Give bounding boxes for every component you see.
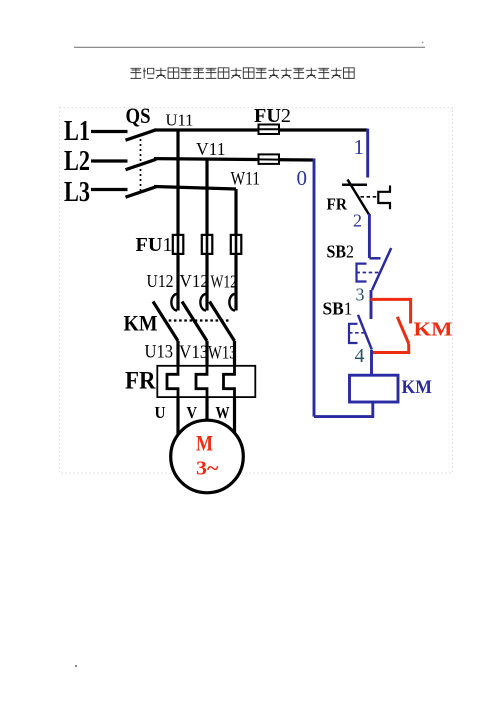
coil KM rectangle [350,375,399,402]
fuse FU1 body W [231,235,242,254]
button SB2 plunger [357,264,367,282]
wire node 4 vertical [370,350,373,375]
contactor KM main contact W fixed bowl [229,294,235,311]
svg-text:KM: KM [402,377,433,398]
svg-text:SB1: SB1 [323,299,353,319]
thermal contact FR actuator hook [378,186,390,210]
thermal relay FR heater W [224,366,235,397]
wire W11 vertical [234,189,237,311]
svg-text:FR: FR [125,368,156,395]
switch QS linkage dotted [140,134,142,193]
motor M circle [171,420,244,493]
contactor KM main contact U blade [153,302,178,342]
wire node 2 vertical [368,214,371,258]
svg-text:KM: KM [414,319,453,341]
contactor KM main contact V fixed bowl [200,294,206,311]
svg-text:L2: L2 [64,146,90,177]
wire L1 input stub [91,130,128,133]
contact KM aux top wire red [371,299,411,323]
diagram border [60,108,453,473]
svg-text:FR: FR [327,195,348,214]
svg-text:U12: U12 [147,271,174,291]
wire W13 vertical [233,341,236,366]
wire L2 input stub [91,159,128,162]
svg-text:U11: U11 [166,111,194,130]
svg-text:SB2: SB2 [327,242,355,262]
svg-text:V: V [187,403,198,422]
wire coil bottom return [314,402,373,417]
wire U11 vertical [176,130,179,311]
contactor KM main contact W blade [210,302,235,342]
svg-text:U13: U13 [145,342,174,363]
svg-text:3: 3 [356,285,365,305]
button SB2 fixed bar [369,257,380,260]
wire L3 input stub [91,188,128,191]
wire V to motor [205,397,208,421]
fuse FU2 body on L1 [259,125,280,135]
button SB1 blade [358,315,372,350]
svg-text:W11: W11 [231,169,261,190]
button SB2 blade [372,248,391,290]
wire L3 bus [154,187,236,190]
fuse FU1 body U [173,235,184,254]
svg-text:KM: KM [124,311,158,336]
wire V13 vertical [205,341,208,366]
svg-text:L1: L1 [64,116,90,147]
svg-text:U: U [155,403,166,422]
svg-text:1: 1 [354,135,365,159]
wire V11 vertical [205,159,208,311]
contact KM aux bottom wire red [372,344,409,353]
svg-text:2: 2 [353,211,362,231]
wire 1 control vertical from L1 [366,129,369,178]
switch QS blade L3 [126,187,157,197]
thermal contact FR fixed bar [342,184,367,187]
thermal relay FR heater V [196,366,207,397]
svg-text:W12: W12 [211,272,238,292]
svg-text:M: M [196,431,213,456]
header rule [74,46,425,48]
contactor KM main contact U fixed bowl [171,294,177,311]
title 三相异步电动机单向连续运行控制电路图 [131,68,355,79]
svg-text:0: 0 [297,166,308,190]
button SB1 plunger [349,324,358,343]
svg-text:FU1: FU1 [136,234,173,256]
thermal relay FR box [157,366,255,397]
svg-text:V11: V11 [196,139,226,159]
wire U to motor [176,397,179,434]
switch QS blade L2 [126,159,157,169]
svg-text:L3: L3 [64,177,90,208]
thermal contact FR actuator dashed [361,196,379,198]
wire node 3 vertical [370,290,373,301]
thermal relay FR heater U [167,366,178,397]
stray period [75,665,77,667]
wire L2 bus [154,159,314,160]
svg-text:V13: V13 [179,342,209,363]
contactor KM main contact V blade [182,302,207,342]
fuse FU1 body V [202,235,213,254]
svg-text:W: W [216,403,230,422]
svg-text:4: 4 [355,345,365,367]
svg-text:V12: V12 [180,271,210,291]
contact KM aux blade red [397,317,408,344]
wire U13 vertical [176,341,179,366]
switch QS blade L1 [126,130,157,140]
fuse FU2 body on L2 [259,154,280,164]
svg-text:W13: W13 [208,343,237,364]
wire L1 bus [154,128,368,131]
svg-text:QS: QS [126,103,151,128]
svg-text:3~: 3~ [196,457,219,479]
wire 0 control vertical from L2 [313,159,316,417]
contactor KM linkage dotted [164,319,232,321]
wire SB1 top terminal [370,300,373,320]
wire W to motor [233,397,236,433]
thermal contact FR blade [348,180,370,216]
